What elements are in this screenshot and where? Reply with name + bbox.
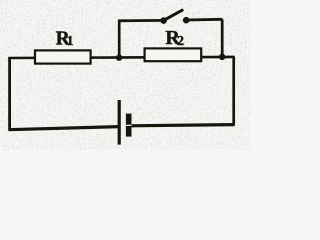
wire main horizontal (top rail through R1 and R2) (8, 57, 234, 58)
wire bottom left (to battery long plate) (8, 127, 119, 130)
resistor R1 (35, 50, 91, 63)
wire parallel-branch right vertical (221, 19, 224, 57)
resistor R2 (145, 48, 202, 61)
wire left vertical (8, 57, 11, 130)
wire bottom right (from battery short plate) (128, 125, 234, 126)
wire parallel-branch left vertical (118, 20, 121, 58)
battery cell: long plate (118, 100, 121, 145)
node junction left (branch to main wire) (116, 54, 122, 60)
battery cell: short thick plate (126, 114, 132, 137)
node junction right (branch to main wire) (219, 54, 225, 60)
switch S1 (160, 10, 189, 24)
wire parallel-branch top right segment (186, 18, 222, 22)
wire parallel-branch top left segment (118, 19, 164, 22)
svg-text:1: 1 (67, 33, 74, 48)
svg-text:2: 2 (177, 34, 184, 49)
wire right vertical (232, 57, 235, 126)
